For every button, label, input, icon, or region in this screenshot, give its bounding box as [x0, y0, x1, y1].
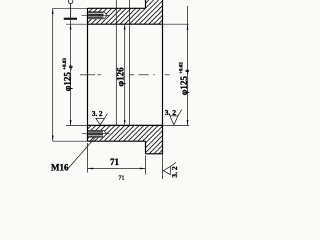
svg-text:φ125: φ125: [179, 76, 189, 96]
OD dimension line left: [52, 8, 54, 141]
flange bottom edge: [146, 153, 163, 155]
dimension 71 extension line right: [145, 156, 147, 175]
bore dimension line right phi125: [187, 6, 189, 125]
svg-text:-0: -0: [186, 69, 191, 74]
leader M16: [67, 137, 96, 170]
hatching lower section: [29, 125, 187, 153]
left end face: [87, 8, 89, 141]
roughness 3.2 left: symbol: [96, 119, 105, 125]
svg-text:+0.03: +0.03: [63, 58, 68, 70]
svg-text:3. 2: 3. 2: [170, 166, 179, 178]
svg-text:+0.03: +0.03: [180, 62, 185, 74]
label phi125 +0.03/0 right: [179, 62, 191, 96]
svg-text:71: 71: [110, 157, 120, 167]
threaded hole M16 bottom: thread bars: [88, 130, 103, 133]
svg-text:3. 2: 3. 2: [92, 110, 103, 118]
gauge cross bar: [64, 18, 77, 20]
outer top surface line: [53, 7, 88, 9]
gauge circle head: [68, 0, 73, 4]
threaded hole M16 top: thread bars: [88, 11, 103, 14]
flange left face top: [145, 0, 147, 8]
flange left face bottom: [145, 141, 147, 154]
bore step line B: [128, 0, 130, 125]
label phi126 middle: [116, 67, 126, 87]
svg-text:M16: M16: [51, 162, 69, 172]
threaded hole M16 bottom: axis: [82, 133, 110, 135]
dimension 71 extension line left: [87, 143, 89, 173]
svg-text:φ125: φ125: [62, 72, 72, 92]
bore bottom surface line: [66, 124, 88, 126]
right end face: [162, 0, 164, 154]
threaded hole M16 top: axis: [82, 14, 111, 16]
label phi125 +0.03/0 left: [62, 58, 74, 92]
svg-text:φ126: φ126: [116, 67, 126, 87]
roughness 3.2 bottom-right: text rotated: [170, 166, 179, 178]
bore dimension line phi126: [124, 24, 126, 125]
outer bottom surface line: [53, 140, 88, 142]
paper background: [0, 0, 240, 180]
svg-text:-0: -0: [70, 65, 75, 70]
gauge stem: [70, 4, 72, 18]
svg-text:71: 71: [119, 175, 125, 180]
bore step line A: [115, 0, 117, 125]
bore top surface line: [66, 23, 88, 25]
centerline: [80, 74, 95, 76]
roughness 3.2 bottom-right: symbol rotated: [163, 167, 170, 175]
threaded hole M16 bottom: outline: [88, 129, 104, 131]
roughness 3.2 bottom-right extension line: [162, 154, 164, 179]
threaded hole M16 top: outline: [88, 11, 105, 13]
bore dimension line left phi125: [70, 20, 72, 126]
dimension 71 line: [88, 168, 146, 170]
hatching upper section: [38, 0, 182, 24]
roughness 3.2 mid-right: symbol: [170, 116, 178, 125]
